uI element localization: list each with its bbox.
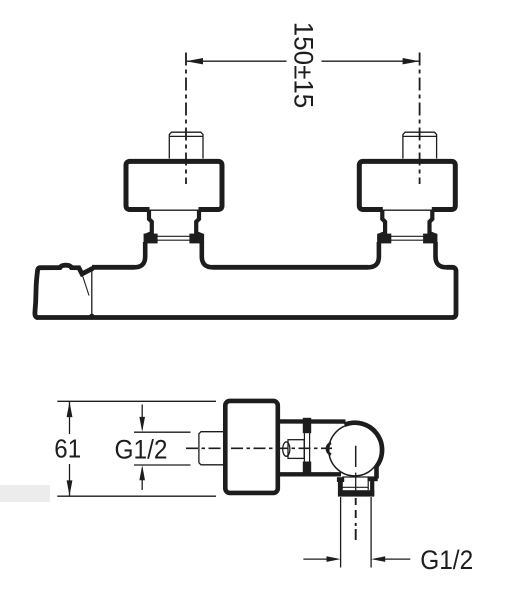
left escutcheon box <box>126 161 222 209</box>
wall plate <box>225 401 277 493</box>
G1/2 bottom dimension line <box>303 558 337 560</box>
dimension 150±15 right arrow <box>403 58 420 64</box>
valve disc <box>303 418 311 433</box>
handle end-on box <box>288 440 304 459</box>
61 top extension line <box>57 400 216 402</box>
right nut flange <box>377 234 391 244</box>
handle joint line <box>91 268 93 317</box>
knob face circle (thin) <box>329 424 381 476</box>
svg-text:61: 61 <box>54 433 81 463</box>
outlet nut inner lines <box>342 477 368 490</box>
svg-text:150±15: 150±15 <box>288 22 318 109</box>
connector arc <box>327 443 331 455</box>
61 dimension line <box>69 402 71 435</box>
knob silhouette arc (thick) <box>345 423 383 479</box>
left boss <box>134 242 212 267</box>
right union nipple <box>403 132 437 158</box>
left centerline (dashed) <box>185 53 187 185</box>
right neck <box>379 210 435 244</box>
right boss <box>368 242 446 267</box>
svg-text:G1/2: G1/2 <box>115 435 168 465</box>
61 bottom extension line <box>57 495 216 497</box>
body top edge <box>278 419 346 424</box>
handle end cap ellipse <box>283 442 290 456</box>
outlet centerline <box>355 446 357 467</box>
left union nipple <box>169 132 203 158</box>
dimension 150±15 line <box>187 60 420 62</box>
handle lever edge line <box>82 274 89 296</box>
bar body outline <box>37 267 457 317</box>
right escutcheon box <box>359 161 455 209</box>
body bottom edge <box>278 472 341 476</box>
inlet nipple (side view) <box>199 432 225 465</box>
right centerline (dashed) <box>419 53 421 185</box>
G1/2 bottom extension lines <box>340 497 342 568</box>
dimension 150±15 left arrow <box>186 58 203 64</box>
outlet elbow <box>337 477 344 482</box>
G1/2 left dimension <box>134 431 191 433</box>
horizontal centerline <box>186 447 332 449</box>
watermark remnant gray box <box>0 485 50 502</box>
svg-text:G1/2: G1/2 <box>420 545 473 575</box>
handle cap <box>35 265 92 317</box>
left nut flange <box>144 234 158 244</box>
left neck <box>146 210 202 244</box>
